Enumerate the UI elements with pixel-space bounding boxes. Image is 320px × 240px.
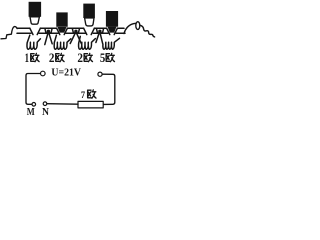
plug P2 tip in socket: [58, 27, 67, 33]
wire S3 rivet legs: [96, 32, 103, 43]
hole H1 left wall: [30, 28, 33, 34]
wire circuit top-left: [26, 74, 40, 105]
svg-text:2: 2: [49, 51, 55, 65]
svg-text:7: 7: [81, 91, 85, 101]
terminal circle upper-left: [41, 71, 46, 76]
wire left lead into resistance box: [1, 27, 17, 39]
hole H4 left wall: [107, 28, 110, 34]
socket shelf S3 top: [94, 27, 106, 29]
plug P2 handle inserted: [56, 12, 67, 26]
resistor box 7 ohm: [78, 101, 103, 108]
plug P3 lifted handle: [83, 4, 95, 18]
glyph ou for 2 ohm second: [84, 53, 92, 61]
socket shelf S0 top: [17, 27, 30, 29]
socket shelf S4 top: [117, 27, 124, 29]
plug P1 tip: [30, 17, 39, 24]
wire S1 rivet legs: [45, 32, 52, 44]
glyph ou for 5 ohm: [106, 53, 114, 61]
resistor R4 coil 5 ohm: [103, 38, 120, 49]
hole H2 left wall: [57, 28, 60, 34]
node dot S3 rivet: [98, 30, 101, 33]
svg-text:1: 1: [25, 51, 29, 65]
wire circuit top-right: [102, 74, 115, 104]
plug P4 tip in socket: [108, 27, 117, 33]
plug P1 lifted handle: [29, 2, 41, 17]
terminal loop on arc: [136, 22, 140, 30]
resistor R1 coil 1 ohm: [27, 35, 40, 49]
wire right lead arc with loop terminal: [124, 23, 136, 33]
node dot S2 rivet: [74, 30, 77, 33]
terminal circle M: [32, 103, 36, 107]
resistor R3 coil 2 ohm: [79, 36, 96, 49]
rivet collar S2: [72, 28, 79, 33]
wire bus bottom line left part: [17, 32, 125, 34]
rivet collar S1: [45, 28, 52, 33]
svg-text:5: 5: [100, 51, 105, 65]
svg-text:2: 2: [77, 51, 83, 65]
svg-text:M: M: [27, 107, 35, 118]
hole H1 right wall: [37, 28, 40, 34]
glyph ou for 1 ohm: [31, 53, 39, 61]
socket shelf S2 top: [67, 27, 83, 29]
terminal circle upper-right: [98, 72, 102, 76]
plug P4 handle inserted: [106, 11, 118, 27]
terminal circle N: [43, 102, 47, 106]
node dot S1 rivet: [47, 30, 50, 33]
hole H3 right wall: [91, 28, 94, 34]
wire N to resistor box: [47, 103, 78, 106]
rivet collar S3: [96, 28, 103, 33]
glyph ou for 2 ohm: [56, 53, 64, 61]
svg-text:U=21V: U=21V: [51, 68, 81, 79]
plug P3 tip: [85, 18, 94, 26]
wire right lead descent: [140, 25, 155, 37]
wire S2 rivet legs: [70, 32, 82, 44]
socket shelf S1 top: [40, 27, 56, 29]
hole H3 left wall: [84, 28, 87, 34]
resistor R2 coil 2 ohm: [54, 35, 71, 49]
glyph ou for 7 ohm: [88, 90, 96, 98]
svg-text:N: N: [42, 107, 49, 118]
hole H4 right wall: [114, 28, 117, 34]
hole H2 right wall: [64, 28, 67, 34]
